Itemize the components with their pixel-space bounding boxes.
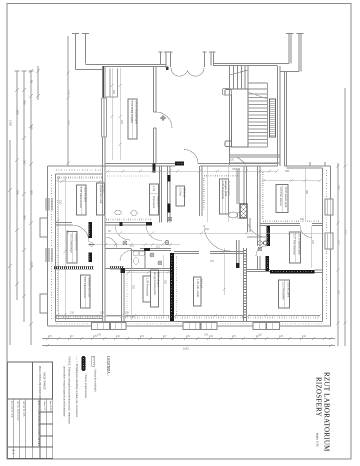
stair right walls xyxy=(278,66,287,166)
interior dimension lines room bottoms xyxy=(131,166,311,320)
bench bands room 1.05 xyxy=(262,172,264,220)
svg-text:368: 368 xyxy=(285,170,290,173)
svg-text:237: 237 xyxy=(311,240,314,245)
bottom-left big lab room label box xyxy=(81,275,91,308)
left wall window 1 xyxy=(46,198,52,211)
room B1 label box xyxy=(150,184,159,215)
ticks along bottom interior dim xyxy=(168,314,321,317)
hall label box xyxy=(176,186,185,206)
svg-text:307: 307 xyxy=(120,120,123,125)
top wall pilaster stubs right wing xyxy=(310,162,325,166)
new wall black bar lower at x90 xyxy=(89,253,93,263)
right wall window bay 2 xyxy=(325,233,333,249)
bench in room B1 along bottom xyxy=(106,219,151,221)
svg-text:RZUT LABORATORIUM: RZUT LABORATORIUM xyxy=(323,372,331,452)
svg-text:UWAGI: Dokonac szczegolowej i: UWAGI: Dokonac szczegolowej inwentaryzac… xyxy=(68,356,71,424)
staircase block xyxy=(230,66,268,165)
room A right wall xyxy=(154,66,157,164)
window bay number labels xyxy=(97,334,263,337)
svg-text:A-1: A-1 xyxy=(12,449,16,455)
gray dotted partition x245 bottom wing xyxy=(244,248,247,322)
top wall of middle rooms band xyxy=(105,164,278,167)
bench band right of black partition xyxy=(176,256,178,318)
svg-text:95: 95 xyxy=(30,80,34,83)
stair core landing xyxy=(225,89,248,147)
svg-text:130: 130 xyxy=(67,90,71,95)
stair treads xyxy=(248,83,268,147)
svg-text:chlodz.: chlodz. xyxy=(103,185,107,193)
bottom facade window bays xyxy=(92,323,280,330)
svg-text:150: 150 xyxy=(230,159,235,162)
bench band along left wall xyxy=(57,200,59,312)
svg-text:- - - - : Przyklejenie okladz: - - - - : Przyklejenie okladziny scianek… xyxy=(75,356,78,418)
interior dim line y315 xyxy=(56,315,136,317)
right wing black bar upper xyxy=(266,226,270,246)
svg-text:data 06.2010: data 06.2010 xyxy=(49,401,51,413)
door arc room 1.05 to 1.07 xyxy=(300,226,312,238)
wall cavity dots left xyxy=(51,175,53,320)
svg-text:RIZOSFERY: RIZOSFERY xyxy=(315,377,323,417)
svg-text:368: 368 xyxy=(305,190,308,195)
small closet near stairs xyxy=(223,89,232,96)
corridor bottom wall y248 xyxy=(105,249,171,251)
right middle room label box xyxy=(220,179,229,214)
short wall below crosshatch xyxy=(248,218,251,232)
svg-text:360: 360 xyxy=(300,218,305,221)
svg-text:opr. inz. Jan Kowalski: opr. inz. Jan Kowalski xyxy=(17,401,19,421)
right wing black bar lower xyxy=(266,256,270,271)
bottom wing room label boxes (pair) xyxy=(151,270,159,307)
bottom wing right room label box xyxy=(194,277,202,306)
svg-text:15.2 m2 gres: 15.2 m2 gres xyxy=(157,272,161,288)
svg-text:640: 640 xyxy=(66,230,69,235)
svg-text:ARCH-INWEST: ARCH-INWEST xyxy=(43,372,46,390)
building bottom wall xyxy=(48,322,332,327)
svg-text:18.4 m2: 18.4 m2 xyxy=(200,279,204,289)
left wing room label box 2 xyxy=(97,183,105,215)
top-right courtyard walls xyxy=(280,34,304,72)
exterior wall left of room A (with window) xyxy=(102,66,104,98)
svg-text:proj. mgr inz. arch.: proj. mgr inz. arch. xyxy=(11,401,14,418)
svg-text:110: 110 xyxy=(156,246,160,249)
duct shaft walls between B1 and hall xyxy=(160,166,171,223)
bench band along top wall left wing xyxy=(57,177,102,179)
svg-text:19.6 m2 gres: 19.6 m2 gres xyxy=(287,282,291,298)
black bar on duct wall upper xyxy=(167,175,170,182)
bottom wall cavity dots xyxy=(56,323,322,325)
svg-text:252: 252 xyxy=(59,200,62,205)
small WC room walls xyxy=(132,249,146,269)
partition x122 bottom wing xyxy=(122,268,125,322)
door arc from corridor into hall (swings up) xyxy=(184,150,198,164)
svg-text:1623: 1623 xyxy=(183,347,189,351)
svg-text:13.30 panele podl.: 13.30 panele podl. xyxy=(298,234,302,256)
svg-text:262: 262 xyxy=(337,290,341,295)
top courtyard wall stub left xyxy=(72,34,89,70)
bench band top of room B1 xyxy=(107,175,150,177)
stair bottom walls xyxy=(230,155,281,164)
svg-text:1.01 Pokoj socjalny: 1.01 Pokoj socjalny xyxy=(130,101,134,124)
new wall black bar upper at x90 xyxy=(89,222,93,238)
svg-text:1.03 Sterylizacja: 1.03 Sterylizacja xyxy=(70,234,74,254)
svg-text:198: 198 xyxy=(97,334,102,337)
svg-text:306: 306 xyxy=(30,190,34,195)
room A interior dimension lines xyxy=(112,68,120,160)
door arc right wing xyxy=(256,246,266,256)
right wing room1 label box xyxy=(276,185,288,213)
bottom bench row all rooms xyxy=(56,316,320,319)
dim row right wing below top wall xyxy=(262,180,320,182)
top wall of middle section xyxy=(76,64,290,70)
svg-text:306: 306 xyxy=(23,215,27,220)
WC room fixtures xyxy=(133,251,144,264)
corridor door arcs xyxy=(105,237,117,249)
right wing room1 partition y223 xyxy=(258,166,323,270)
svg-text:16.50 panele podl.: 16.50 panele podl. xyxy=(284,187,288,209)
right wing room3 label box xyxy=(279,280,290,308)
svg-text:237: 237 xyxy=(337,240,341,245)
svg-text:28.6 m2 gres: 28.6 m2 gres xyxy=(84,187,88,203)
svg-text:925: 925 xyxy=(16,190,20,195)
svg-text:1.05 Pok. kierow.: 1.05 Pok. kierow. xyxy=(279,187,283,207)
svg-text:118: 118 xyxy=(125,312,129,315)
svg-text:1.07 Pok. biurowy: 1.07 Pok. biurowy xyxy=(293,234,297,255)
svg-text:1.10 Laboratorium: 1.10 Laboratorium xyxy=(83,277,87,298)
svg-text:18.3 m2: 18.3 m2 xyxy=(183,188,187,198)
dark corner mark room B1 xyxy=(120,222,123,226)
svg-text:285: 285 xyxy=(112,90,115,95)
svg-text:11.2 m2 gres: 11.2 m2 gres xyxy=(227,181,231,197)
svg-text:przygotowania prob: przygotowania prob xyxy=(153,272,157,295)
legend item new walls symbol xyxy=(82,356,86,371)
window in wall left of room A xyxy=(102,98,107,137)
svg-text:14.30 m2 plytki gres: 14.30 m2 plytki gres xyxy=(135,101,139,125)
interior dim line y272 middle-bottom xyxy=(127,271,170,273)
svg-text:1.08 Pracownia: 1.08 Pracownia xyxy=(146,278,150,296)
left dimension line cluster xyxy=(10,66,38,345)
svg-text:257: 257 xyxy=(210,260,215,263)
right wing room2 label box xyxy=(290,232,301,263)
left wall pier 2 xyxy=(40,294,48,313)
door symbol room A xyxy=(160,115,166,121)
left wing partition wall at y222 xyxy=(56,223,73,226)
left wall window 2 xyxy=(46,248,52,262)
svg-text:262: 262 xyxy=(23,160,27,165)
room A label box xyxy=(128,99,137,139)
svg-text:340: 340 xyxy=(67,120,71,125)
right wing horizontal black bar xyxy=(270,270,315,274)
bottom dimension row totals xyxy=(42,345,335,347)
right dimension numbers xyxy=(337,185,348,295)
wall between left wing and room x103 lower xyxy=(103,174,106,322)
right dimension lines xyxy=(338,88,345,346)
svg-text:300: 300 xyxy=(23,100,27,105)
entrance pilasters xyxy=(159,52,216,68)
svg-text:1.11 Pracownia: 1.11 Pracownia xyxy=(282,282,286,300)
svg-text:rizosfery 32.2 m2: rizosfery 32.2 m2 xyxy=(88,277,92,297)
svg-text:1.02 Laboratorium: 1.02 Laboratorium xyxy=(79,187,83,208)
corridor south wall segments xyxy=(105,252,270,272)
svg-text:817: 817 xyxy=(344,230,348,235)
svg-text:LEGENDA :: LEGENDA : xyxy=(106,356,110,376)
left wing room label box 1 xyxy=(77,185,87,215)
title block table xyxy=(8,362,53,459)
svg-text:525: 525 xyxy=(164,280,167,285)
dark segment top of wall x152 xyxy=(153,164,156,173)
svg-text:skala 1:50: skala 1:50 xyxy=(43,401,45,411)
svg-text:198: 198 xyxy=(204,334,209,337)
long black partition wall bottom wing xyxy=(170,253,174,321)
svg-text:: Sciany do rozbiorki: : Sciany do rozbiorki xyxy=(94,368,97,392)
wall continuing right of black bar xyxy=(315,270,323,273)
left dimension ticks xyxy=(8,69,40,326)
bench band left wall middle-bottom room xyxy=(126,272,128,318)
svg-text:290: 290 xyxy=(337,185,341,190)
stair rail hatched band xyxy=(270,99,276,137)
double entry door arcs xyxy=(171,68,188,76)
svg-text:przewodow wentylacyjnych przed: przewodow wentylacyjnych przed kominami xyxy=(63,366,66,417)
bench band bottom-left rooms xyxy=(54,266,124,269)
left wall pier 1 xyxy=(40,218,48,237)
svg-text:Pracownia: Pracownia xyxy=(152,196,156,209)
door room A to hall xyxy=(156,112,172,128)
middle rooms: bottom wall of room B row (y222) xyxy=(105,223,152,226)
courtyard dimension line x68 xyxy=(67,36,69,166)
exterior terrace by room A xyxy=(105,69,118,98)
right wing outer wall xyxy=(285,166,331,326)
wall cavity dots top xyxy=(56,169,102,171)
left wing outer walls xyxy=(48,166,106,326)
door symbol near x90 xyxy=(89,243,95,247)
svg-text:232: 232 xyxy=(205,228,210,231)
title block texts xyxy=(11,366,52,455)
black bar on top wall near room B xyxy=(175,162,184,166)
svg-text:210: 210 xyxy=(70,312,75,315)
svg-text:252: 252 xyxy=(132,285,135,290)
corridor dim line y244.5 xyxy=(95,244,180,246)
svg-text:skala 1:50: skala 1:50 xyxy=(316,433,320,447)
left wing interior dim line xyxy=(58,176,65,320)
WC top right fixtures xyxy=(258,241,268,245)
dark jamb mark left of entry xyxy=(166,67,169,71)
svg-text:152: 152 xyxy=(130,245,135,248)
svg-text:1.04: 1.04 xyxy=(152,186,156,192)
svg-text:608: 608 xyxy=(16,110,20,115)
dim line between bottom rooms xyxy=(223,248,225,295)
bottom dimension row 1 xyxy=(42,338,335,340)
right wall cavity dots xyxy=(326,170,328,320)
black bar on duct wall lower xyxy=(167,204,170,213)
wall right of middle room with crosshatch xyxy=(237,166,247,204)
svg-text:1250: 1250 xyxy=(9,120,13,126)
svg-text:525: 525 xyxy=(100,312,105,315)
crosshatched infill wall xyxy=(240,204,247,218)
svg-text:245: 245 xyxy=(232,168,237,171)
small room label box left xyxy=(67,232,77,264)
black bits corridor walls xyxy=(146,222,152,226)
main drawing title rotated xyxy=(315,372,331,452)
wall between hall and right middle room xyxy=(200,166,203,216)
sinks in room B1 xyxy=(115,210,137,215)
svg-text:1.0 hol: 1.0 hol xyxy=(179,188,183,196)
svg-text:PRACOWNIA PROJEKTOWA: PRACOWNIA PROJEKTOWA xyxy=(38,366,41,399)
door left wing to lower room xyxy=(72,225,89,242)
door arc right of crosshatch xyxy=(247,218,266,237)
legend item demolition walls symbol xyxy=(92,356,95,366)
WC fixture near crosshatch xyxy=(229,212,238,218)
interior dim line y181 left wing xyxy=(57,181,102,183)
assorted interior dimension numbers xyxy=(59,90,315,315)
dim row below middle band top wall xyxy=(106,170,277,172)
right wall window bay 1 xyxy=(325,199,333,215)
bench bands right middle room xyxy=(204,175,238,177)
svg-text:: Sciany projektowane: : Sciany projektowane xyxy=(84,373,87,399)
legend xyxy=(106,356,110,376)
left dimension numbers xyxy=(9,80,71,267)
corridor walls right middle xyxy=(237,240,240,268)
svg-text:1.09 Lab. analiz: 1.09 Lab. analiz xyxy=(196,279,200,298)
svg-text:RZUT LABORATORIUM RIZOSFERY: RZUT LABORATORIUM RIZOSFERY xyxy=(37,401,40,447)
svg-text:szatnia 9.8 m2: szatnia 9.8 m2 xyxy=(75,234,79,251)
electrical symbols corridor xyxy=(123,217,267,265)
corridor dim line horizontal y233 xyxy=(105,232,330,234)
svg-text:spr. mgr inz. arch.: spr. mgr inz. arch. xyxy=(23,401,26,417)
